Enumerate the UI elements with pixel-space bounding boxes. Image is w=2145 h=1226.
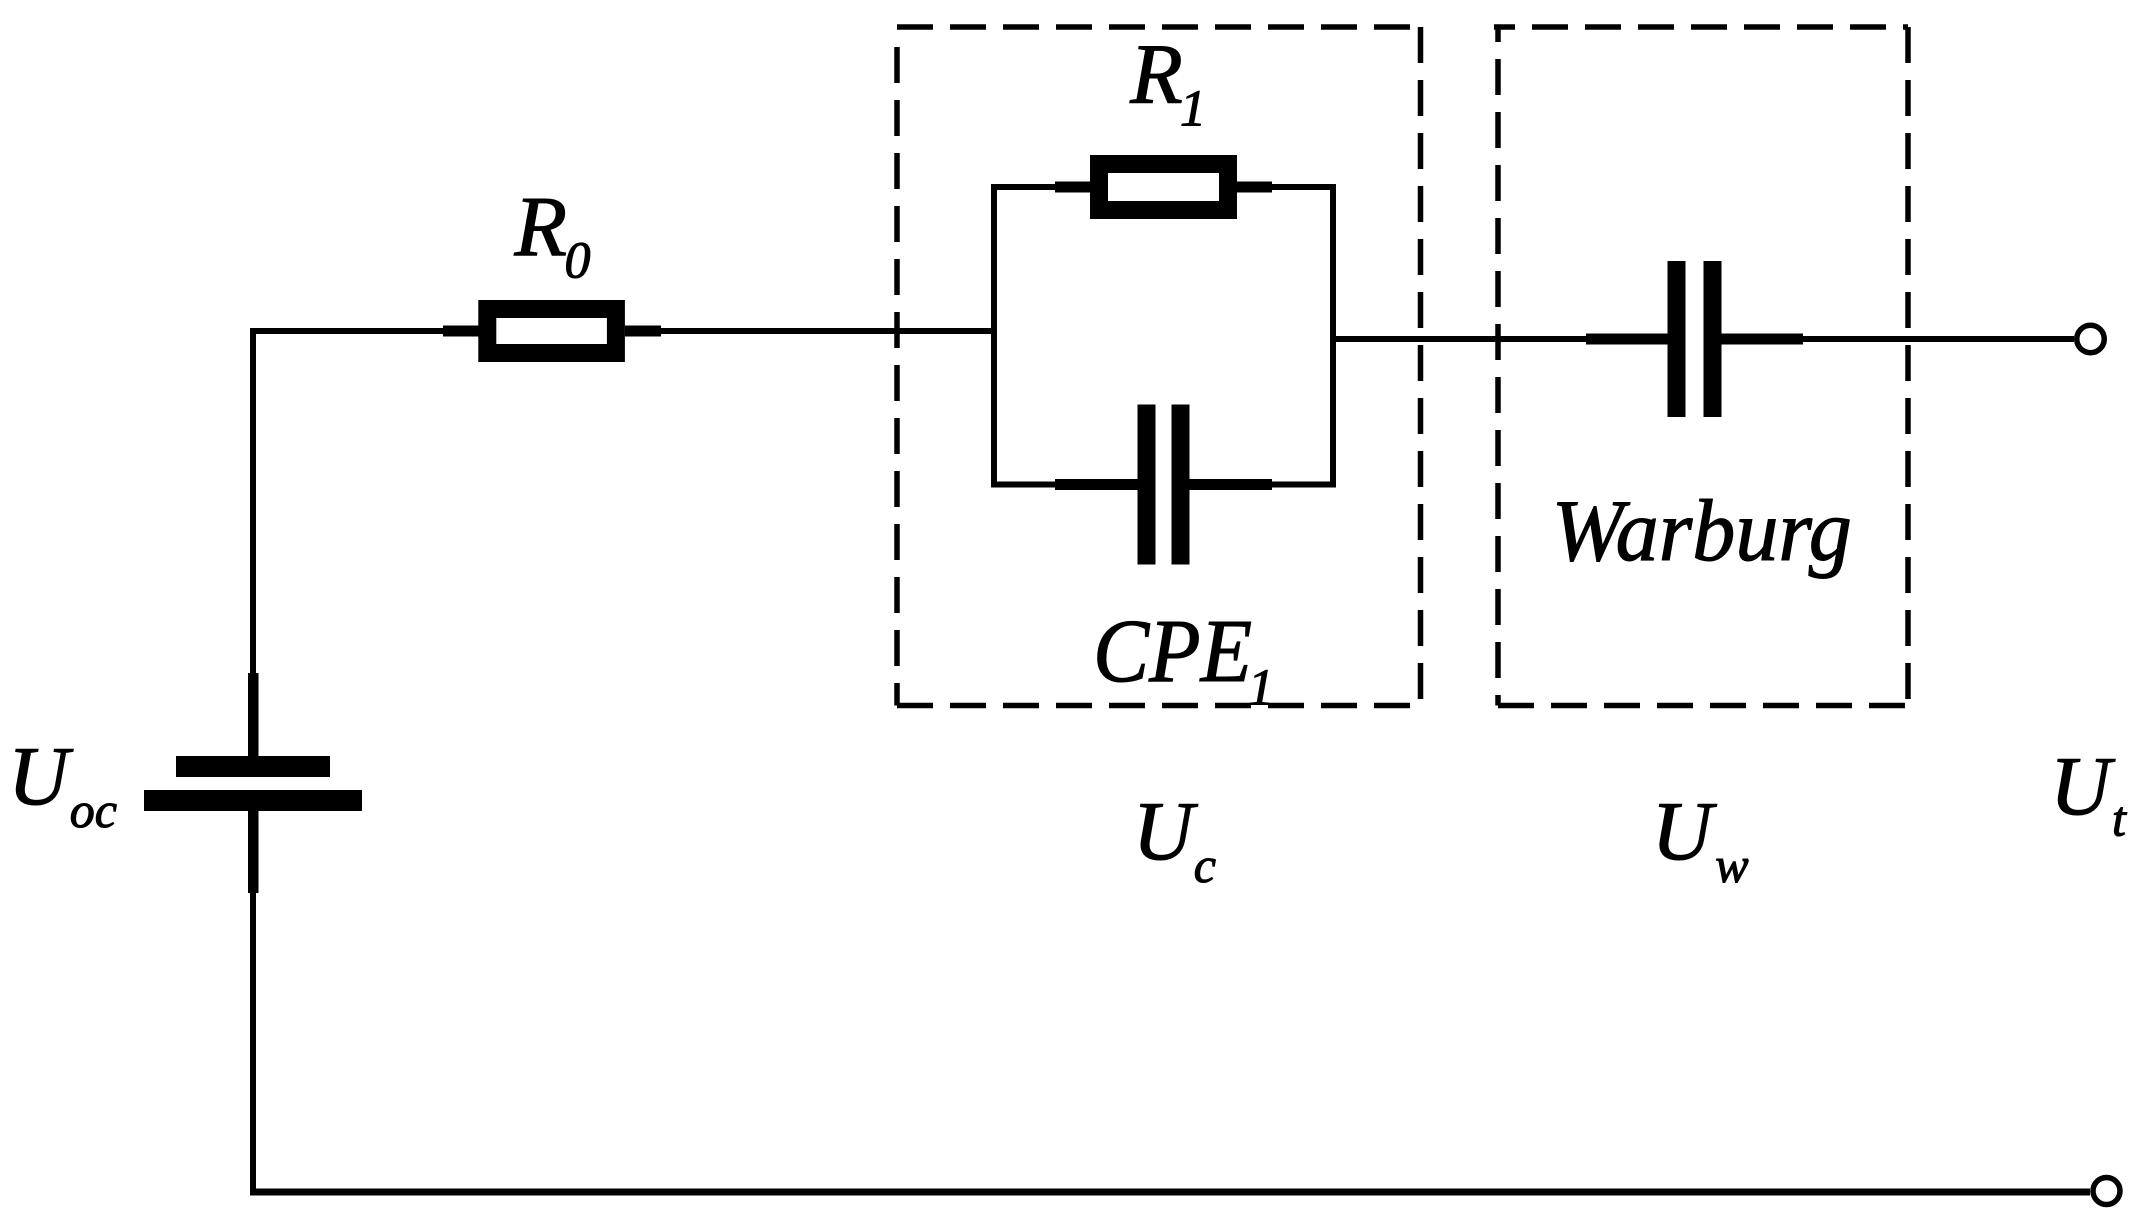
dashed box CPE1 section top xyxy=(897,24,1421,30)
svg-text:w: w xyxy=(1715,837,1748,893)
resistor R0 lead right xyxy=(625,326,661,337)
bottom terminal node Ut- xyxy=(2093,1178,2120,1205)
svg-text:1: 1 xyxy=(1248,660,1274,717)
Warburg capacitor lead right xyxy=(1721,334,1803,345)
Warburg capacitor lead left xyxy=(1586,334,1668,345)
svg-text:U: U xyxy=(2050,740,2116,833)
battery Uoc top plate xyxy=(176,756,330,777)
svg-text:t: t xyxy=(2112,791,2127,847)
svg-text:Warburg: Warburg xyxy=(1552,483,1852,580)
capacitor CPE1 lead right xyxy=(1181,479,1272,490)
resistor R1 lead left xyxy=(1055,182,1091,193)
svg-text:R: R xyxy=(514,178,568,274)
dashed box CPE1 section right xyxy=(1418,27,1424,706)
wire parallel group to Warburg xyxy=(1333,336,1587,342)
parallel loop wire (R1 // CPE1) xyxy=(994,187,1333,485)
svg-text:c: c xyxy=(1194,837,1216,893)
svg-text:U: U xyxy=(8,730,74,823)
dashed box Warburg section bottom xyxy=(1498,703,1908,709)
dashed box CPE1 section left xyxy=(894,30,900,706)
svg-text:R: R xyxy=(1129,26,1183,122)
wire Warburg to top terminal xyxy=(1803,336,2074,342)
Warburg capacitor plates xyxy=(1668,261,1686,417)
capacitor CPE1 lead left xyxy=(1055,479,1146,490)
svg-text:U: U xyxy=(1133,785,1199,878)
dashed box Warburg section right xyxy=(1905,27,1911,706)
svg-text:CPE: CPE xyxy=(1093,602,1252,701)
dashed box Warburg section top xyxy=(1494,24,1908,30)
dashed box Warburg section left xyxy=(1495,27,1501,706)
wire top-left corner from battery top to R0 xyxy=(253,331,443,676)
resistor R1 lead right xyxy=(1236,182,1272,193)
svg-text:U: U xyxy=(1652,785,1718,878)
wire bottom rail from battery bottom to bottom terminal xyxy=(250,893,256,1192)
resistor R0 body xyxy=(487,309,616,353)
battery Uoc top lead stub xyxy=(248,673,259,757)
svg-text:0: 0 xyxy=(565,233,591,290)
capacitor CPE1 gap cover xyxy=(1154,476,1173,493)
wire bottom horizontal to terminal xyxy=(250,1189,2090,1196)
dashed box CPE1 section bottom xyxy=(897,703,1421,709)
svg-text:1: 1 xyxy=(1180,81,1206,138)
wire R0 to parallel group xyxy=(660,328,995,334)
capacitor CPE1 plates xyxy=(1138,405,1156,565)
resistor R0 lead left xyxy=(443,326,479,337)
battery Uoc bottom plate xyxy=(144,790,362,811)
battery Uoc bottom lead stub xyxy=(248,811,259,893)
top terminal node Ut+ xyxy=(2077,325,2105,353)
svg-text:oc: oc xyxy=(70,782,117,838)
resistor R1 body xyxy=(1099,164,1228,210)
